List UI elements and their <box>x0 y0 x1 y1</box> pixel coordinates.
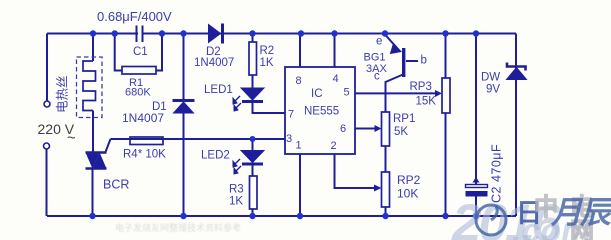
svg-text:R2: R2 <box>260 45 275 57</box>
svg-text:680K: 680K <box>125 87 151 99</box>
resistor R4 <box>130 137 163 145</box>
wire D1 anode to bottom rail <box>183 113 185 216</box>
watermark 中 outline <box>534 196 558 220</box>
wire triac to bottom rail <box>92 170 94 217</box>
resistor R3 <box>250 176 258 209</box>
wire BG1 base <box>406 60 418 62</box>
wire RP3 top lead <box>445 34 447 79</box>
wire RP1 to RP2 <box>385 146 387 172</box>
heater dashed box <box>77 57 103 118</box>
watermark .com <box>512 214 591 240</box>
svg-text:2: 2 <box>331 140 337 152</box>
zener diode DW 9V <box>507 63 527 80</box>
heater element 电热丝 <box>83 61 96 111</box>
svg-text:b: b <box>421 55 427 67</box>
svg-text:8: 8 <box>296 75 302 87</box>
svg-text:1K: 1K <box>229 196 243 208</box>
wire left top vertical to terminal 1 <box>46 34 48 102</box>
resistor R2 <box>249 42 257 75</box>
LED1 <box>233 88 264 111</box>
svg-text:LED2: LED2 <box>201 150 230 162</box>
svg-text:1N4007: 1N4007 <box>194 57 234 69</box>
wire C1 left drop <box>115 34 122 71</box>
svg-text:1K: 1K <box>260 57 274 69</box>
svg-text:R4* 10K: R4* 10K <box>123 149 166 161</box>
svg-text:C1: C1 <box>133 46 148 58</box>
wire pin 8 <box>299 34 301 68</box>
svg-text:BG1: BG1 <box>364 52 386 64</box>
wire left bottom vertical from terminal 2 <box>46 149 48 216</box>
watermark big 2016 <box>452 197 558 240</box>
wire D1 branch <box>183 34 185 100</box>
wire right edge vertical <box>515 34 517 217</box>
terminal bottom <box>44 143 50 149</box>
wire BG1 collector to RP1 <box>386 75 404 113</box>
svg-text:DW: DW <box>481 72 500 84</box>
svg-text:0.68μF/400V: 0.68μF/400V <box>97 9 172 24</box>
wire RP2 to bottom rail <box>385 207 387 216</box>
triac BCR <box>86 153 107 169</box>
junction dots top rail <box>90 30 479 36</box>
faint gray smudge bottom left <box>115 221 241 234</box>
diode D1 1N4007 <box>173 101 195 114</box>
svg-text:c: c <box>374 71 380 83</box>
wire pin 4 <box>334 34 336 68</box>
wire R2 top lead <box>252 34 254 43</box>
wire BG1 emitter diagonal <box>385 35 397 49</box>
svg-text:5K: 5K <box>394 126 408 138</box>
op-amp/timer IC U1 NE555 <box>285 67 355 154</box>
LED2 <box>233 151 264 175</box>
svg-text:IC: IC <box>311 88 323 100</box>
wire heater drop from top rail <box>92 34 94 62</box>
wire bottom rail <box>47 215 516 217</box>
svg-text:9V: 9V <box>486 84 500 96</box>
transistor BG1 3AX <box>391 44 406 78</box>
terminal top <box>44 101 50 107</box>
svg-text:1N4007: 1N4007 <box>122 111 164 125</box>
wire gate R4 pin3 horizontal <box>111 138 286 140</box>
svg-text:6: 6 <box>340 123 346 135</box>
wire heater to triac <box>92 111 94 152</box>
watermark 电网 outline <box>570 196 611 240</box>
diode D2 1N4007 <box>209 24 223 44</box>
svg-text:RP3: RP3 <box>410 81 432 93</box>
capacitor C1 <box>138 27 142 40</box>
svg-text:3: 3 <box>286 133 292 145</box>
wire C2 to bottom rail <box>475 196 477 216</box>
wire pin 2 to RP2 wiper <box>335 154 378 188</box>
potentiometer RP1 <box>382 112 390 146</box>
svg-text:BCR: BCR <box>103 178 129 192</box>
wire R3 to bottom rail <box>252 209 254 216</box>
potentiometer RP2 <box>382 172 390 207</box>
watermark 日 <box>516 200 542 226</box>
wire LED2 to R3 <box>252 163 254 177</box>
watermark 月辰 <box>551 197 609 228</box>
wire pin 5 to RP3 wiper <box>355 92 436 94</box>
svg-text:15K: 15K <box>416 96 437 108</box>
wire RP3 bottom lead <box>445 113 447 216</box>
wire C2 branch top <box>475 34 477 185</box>
wire top rail <box>47 33 516 35</box>
svg-text:e: e <box>376 36 382 48</box>
svg-text:~: ~ <box>67 130 76 147</box>
svg-text:1: 1 <box>296 140 302 152</box>
wire pin 1 to bottom rail <box>299 154 301 216</box>
resistor R1 <box>122 67 156 75</box>
wire LED2 drop <box>252 139 254 150</box>
wire R2 to LED1 <box>252 75 254 88</box>
wire LED1 to pin 7 <box>253 102 286 113</box>
svg-text:7: 7 <box>288 109 294 121</box>
junction dots bottom rail <box>89 213 479 219</box>
node LED2 junction <box>250 136 256 142</box>
wire C1 right drop <box>156 34 162 71</box>
svg-text:5: 5 <box>344 87 350 99</box>
svg-text:10K: 10K <box>397 187 418 201</box>
potentiometer RP3 <box>442 78 450 113</box>
svg-text:4: 4 <box>333 73 339 85</box>
svg-text:电热丝: 电热丝 <box>56 75 70 113</box>
svg-text:RP1: RP1 <box>393 113 415 125</box>
svg-text:RP2: RP2 <box>397 173 421 187</box>
capacitor C2 470uF electrolytic <box>466 177 488 197</box>
svg-text:R3: R3 <box>229 184 244 196</box>
wire pin 6 to RP1 wiper <box>355 128 375 130</box>
wire triac gate diagonal <box>106 139 111 152</box>
svg-text:LED1: LED1 <box>204 84 233 96</box>
svg-text:NE555: NE555 <box>304 106 339 118</box>
